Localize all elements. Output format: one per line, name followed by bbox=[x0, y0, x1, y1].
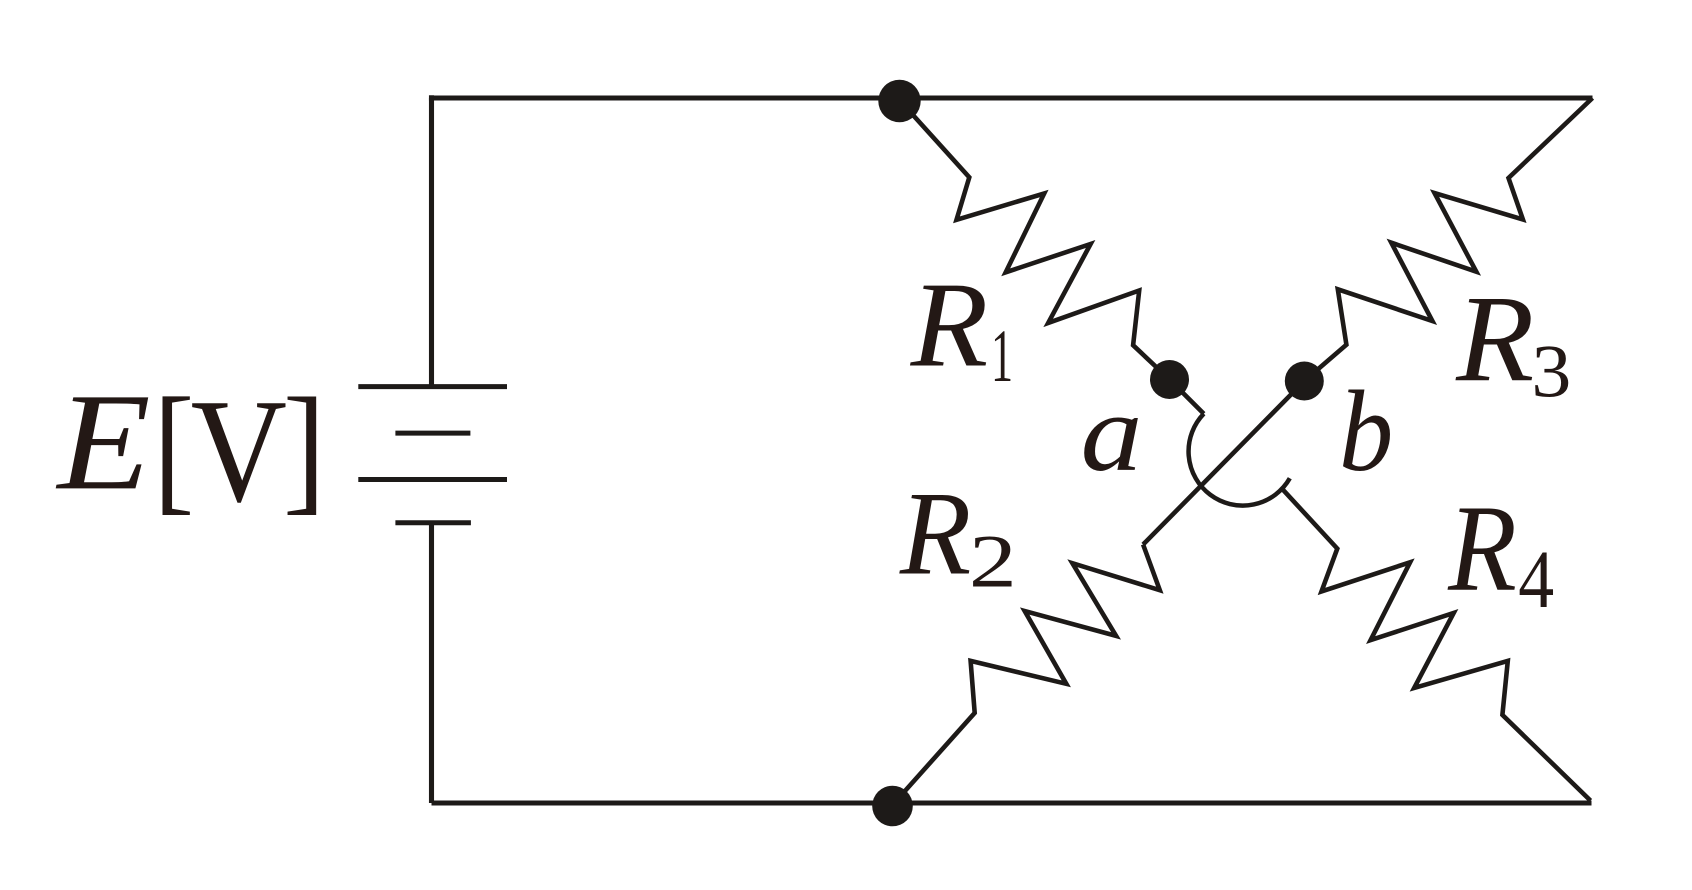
resistor R3 bbox=[1304, 98, 1592, 381]
wire node b to R2 bbox=[1143, 381, 1304, 545]
svg-text:R: R bbox=[899, 467, 971, 599]
node b bbox=[1285, 362, 1324, 401]
svg-text:V: V bbox=[191, 368, 287, 533]
wire bottom bbox=[432, 800, 1592, 805]
svg-text:3: 3 bbox=[1531, 329, 1571, 412]
svg-text:R: R bbox=[1455, 271, 1534, 408]
svg-text:4: 4 bbox=[1518, 534, 1554, 626]
node a bbox=[1150, 360, 1189, 399]
wire left upper bbox=[429, 98, 434, 387]
resistor R1 bbox=[899, 99, 1170, 380]
svg-text:1: 1 bbox=[991, 315, 1013, 398]
battery E plate long top bbox=[358, 384, 507, 389]
resistor R4 bbox=[1282, 489, 1591, 801]
svg-text:]: ] bbox=[283, 370, 326, 528]
svg-text:R: R bbox=[910, 257, 989, 392]
svg-text:[: [ bbox=[153, 368, 194, 527]
svg-text:a: a bbox=[1081, 372, 1143, 495]
wire hop arc bbox=[1189, 414, 1290, 506]
battery E plate short upper bbox=[395, 431, 470, 436]
battery E plate long lower bbox=[358, 477, 507, 482]
svg-text:E: E bbox=[55, 365, 150, 519]
wire node a to hop bbox=[1170, 380, 1204, 414]
svg-text:b: b bbox=[1339, 368, 1393, 496]
battery E plate short bottom bbox=[395, 520, 471, 525]
wire left lower bbox=[429, 523, 434, 803]
node bottom junction bbox=[872, 786, 913, 827]
resistor R2 bbox=[892, 545, 1160, 806]
node top junction bbox=[878, 80, 920, 122]
svg-text:2: 2 bbox=[969, 520, 1017, 603]
svg-text:R: R bbox=[1447, 479, 1517, 616]
wire top bbox=[432, 95, 1593, 98]
